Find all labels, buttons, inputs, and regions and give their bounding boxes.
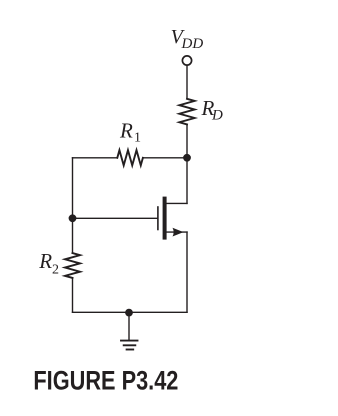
svg-text:R: R bbox=[119, 119, 133, 143]
svg-text:DD: DD bbox=[181, 36, 204, 52]
svg-text:FIGURE P3.42: FIGURE P3.42 bbox=[33, 366, 178, 396]
svg-text:R: R bbox=[38, 249, 52, 273]
svg-text:D: D bbox=[211, 107, 223, 123]
svg-text:2: 2 bbox=[52, 262, 59, 277]
svg-text:1: 1 bbox=[134, 131, 141, 146]
